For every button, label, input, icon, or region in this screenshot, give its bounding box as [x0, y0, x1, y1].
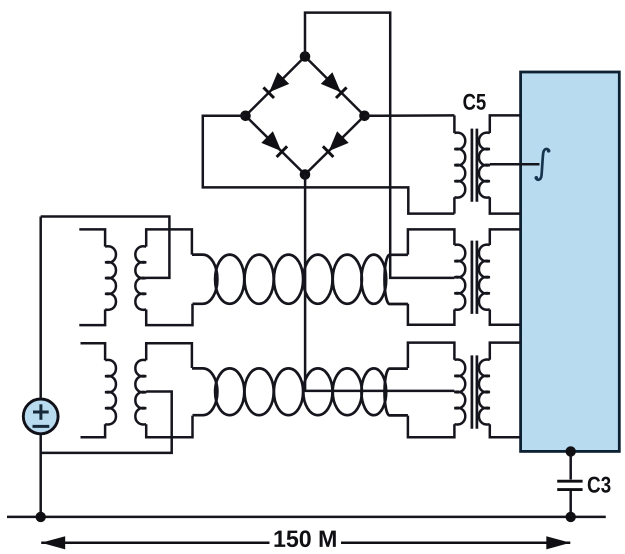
transformer T3 secondary winding	[479, 359, 490, 424]
receiver module box U1	[521, 72, 620, 451]
wire T3 secondary top lead to receiver	[490, 343, 521, 360]
wire ground return line	[7, 516, 606, 519]
wire T5 primary top lead (open stub)	[81, 343, 106, 360]
wire T4 secondary bottom lead to receiver	[490, 197, 521, 213]
wire T4 primary bottom lead	[453, 197, 456, 213]
wire T1 secondary bottom lead to line B	[146, 304, 192, 325]
diode D2 (top node to right node)	[321, 72, 347, 98]
transformer T1 secondary winding	[135, 246, 146, 310]
junction node bridge bottom	[300, 169, 311, 180]
transformer T4 secondary winding	[479, 133, 490, 198]
wire receiver bottom to capacitor C3	[569, 451, 572, 479]
capacitor C3 plates	[557, 480, 582, 483]
voltage source minus sign	[33, 425, 50, 428]
wire capacitor C3 to ground line	[569, 491, 572, 517]
transformer T4 core	[471, 129, 474, 202]
dimension arrowhead right	[546, 536, 570, 549]
twisted pair cable upper (lines A/B)	[192, 255, 408, 304]
transformer T2 core	[471, 241, 474, 314]
junction ground at C3	[566, 512, 576, 522]
wire line A to T2 primary top	[408, 229, 455, 254]
transformer T1 primary winding	[105, 246, 116, 310]
wire T4 secondary top lead to receiver	[490, 115, 521, 133]
transformer T5 secondary winding	[135, 360, 146, 425]
transformer T4 primary winding (C5)	[454, 133, 465, 198]
wire T4 primary top lead	[453, 115, 456, 133]
dimension line 150 M left segment	[41, 542, 269, 545]
wire bridge top node to T2 primary center tap	[305, 13, 454, 278]
junction ground at source	[36, 512, 46, 522]
transformer T5 primary winding	[105, 360, 116, 425]
diode D4 (right node to bottom node)	[323, 131, 349, 157]
voltage source plus sign	[33, 411, 49, 414]
wire line C to T3 primary top	[408, 343, 455, 368]
junction node bridge right	[359, 111, 370, 122]
wire source positive up to top rail	[39, 217, 42, 400]
diode D3 (left node to bottom node)	[261, 131, 287, 157]
wire source negative down to ground line	[39, 434, 42, 517]
transformer T3 primary winding	[454, 359, 465, 424]
wire T2 secondary bottom lead to receiver	[490, 310, 521, 325]
diode D1 (top node to left node)	[263, 72, 289, 98]
wire T5 secondary top lead to line C	[146, 343, 192, 368]
wire top rail to T1 secondary center tap	[41, 217, 170, 278]
wire T1 primary top lead (open stub)	[79, 229, 105, 246]
wire source negative branch to T5 secondary center tap	[41, 392, 172, 453]
twisted pair cable lower (lines C/D)	[192, 368, 408, 415]
dimension arrowhead left	[41, 536, 65, 549]
transformer T3 core	[471, 355, 474, 428]
wire line B to T2 primary bottom	[408, 304, 455, 325]
junction node bridge top	[300, 51, 311, 62]
transformer T2 primary winding	[454, 245, 465, 310]
wire T5 secondary bottom lead to line D	[146, 416, 192, 438]
wire T1 primary bottom lead (open stub)	[79, 310, 105, 326]
voltage source V1	[23, 399, 58, 434]
label 150 M	[274, 530, 335, 547]
wire T5 primary bottom lead (open stub)	[81, 424, 106, 437]
junction receiver bottom node	[566, 446, 576, 456]
wire T3 secondary bottom lead to receiver	[490, 424, 521, 437]
wire bridge left node to C5 transformer primary bottom	[203, 116, 455, 214]
transformer T2 secondary winding	[479, 245, 490, 310]
label C5	[463, 94, 485, 110]
label C3	[588, 477, 611, 493]
junction node bridge left	[240, 111, 251, 122]
integrator symbol	[536, 149, 549, 180]
wire T1 secondary top lead to line A	[146, 229, 192, 254]
wire T4 secondary center tap to integrator	[490, 163, 540, 166]
wire bridge diamond edges	[246, 57, 365, 175]
dimension line 150 M right segment	[341, 542, 570, 545]
wire line D to T3 primary bottom	[408, 416, 455, 438]
wire bridge bottom node to T3 primary center tap	[305, 175, 454, 391]
wire T2 secondary top lead to receiver	[490, 229, 521, 245]
wire bridge right node to C5 transformer primary top	[365, 114, 455, 117]
